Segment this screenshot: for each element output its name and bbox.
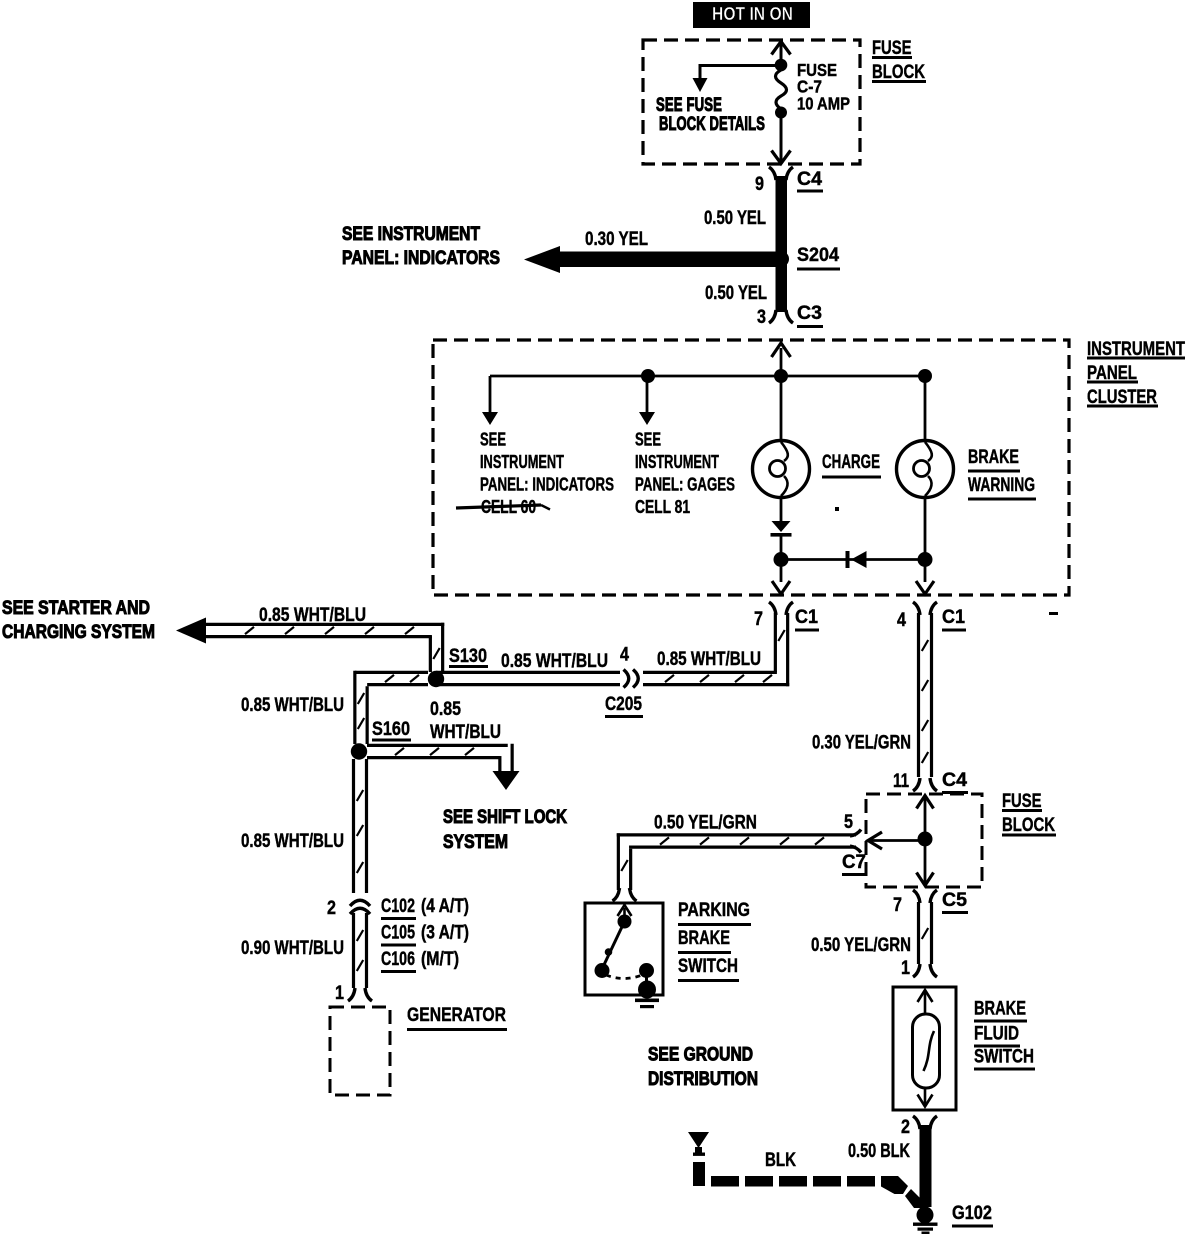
wire from HOT IN ON into fuse block (772, 42, 791, 66)
wire from S130 up to starter branch corner (430, 623, 442, 672)
wire diode to junction (780, 536, 783, 560)
svg-text:HOT IN ON: HOT IN ON (712, 3, 793, 24)
wire 0.30 YEL to instrument panel indicators (left arrow) (524, 228, 777, 273)
svg-text:4: 4 (897, 609, 906, 631)
svg-text:0.50 YEL: 0.50 YEL (704, 207, 766, 229)
svg-text:DISTRIBUTION: DISTRIBUTION (648, 1068, 758, 1090)
connector C3 pin 3 (757, 302, 823, 328)
svg-text:0.30 YEL/GRN: 0.30 YEL/GRN (812, 731, 911, 753)
svg-text:(4 A/T): (4 A/T) (421, 895, 469, 917)
svg-text:BLOCK: BLOCK (1002, 814, 1055, 836)
connector C5 pin 7 (893, 889, 968, 916)
svg-text:9: 9 (755, 173, 764, 195)
wire entering cluster from C3 (772, 343, 791, 376)
wire inside lower fuse block (917, 796, 934, 886)
svg-text:0.90 WHT/BLU: 0.90 WHT/BLU (241, 937, 344, 959)
label SEE SHIFT LOCK SYSTEM (443, 806, 567, 853)
svg-text:PANEL: GAGES: PANEL: GAGES (635, 474, 735, 494)
svg-text:BRAKE: BRAKE (968, 446, 1019, 468)
diode (horizontal, pointing left) (846, 551, 867, 568)
label FUSE BLOCK (872, 37, 926, 83)
wire corner down to S160 (355, 671, 367, 744)
svg-text:SWITCH: SWITCH (678, 955, 738, 977)
wire S160 to shift lock system (367, 744, 520, 790)
indicator lamp BRAKE WARNING (897, 441, 954, 498)
connector C7 pin 5 (flare at end of parking brake wire) (842, 811, 867, 876)
svg-text:S130: S130 (449, 645, 487, 667)
junction on bus at charge lamp (774, 369, 788, 383)
wire 0.85 WHT/BLU from C1-7 down to corner (775, 613, 787, 686)
wire 0.90 WHT/BLU from C102 to generator (241, 913, 367, 988)
cross wire between legs (781, 558, 925, 561)
svg-text:0.85 WHT/BLU: 0.85 WHT/BLU (501, 650, 608, 672)
instrument panel cluster dashed enclosure (433, 340, 1069, 595)
connector pin 1 at brake fluid switch (901, 957, 937, 979)
svg-text:C7: C7 (842, 851, 866, 873)
wire charge leg to connector C1 pin 7 (772, 559, 790, 594)
wire 0.85 WHT/BLU horizontal C205 to corner (436, 648, 789, 685)
svg-text:1: 1 (335, 982, 344, 1004)
svg-text:FUSE: FUSE (1002, 790, 1042, 812)
svg-text:WHT/BLU: WHT/BLU (430, 721, 501, 743)
svg-text:(3 A/T): (3 A/T) (421, 921, 469, 943)
svg-text:0.30 YEL: 0.30 YEL (585, 228, 648, 250)
connector C102/C105/C106 pin 2 (inline) (327, 893, 371, 919)
label SEE INSTRUMENT PANEL: INDICATORS (342, 223, 500, 269)
bus wire inside cluster (490, 375, 925, 378)
svg-text:PANEL: INDICATORS: PANEL: INDICATORS (480, 474, 614, 494)
svg-text:C5: C5 (942, 889, 967, 911)
svg-text:SEE: SEE (480, 429, 506, 449)
svg-text:PANEL: INDICATORS: PANEL: INDICATORS (342, 247, 500, 269)
wire brake warning lamp to junction (924, 496, 927, 560)
junction right (brake warning leg) (918, 552, 933, 567)
connector C205 pin 4 (inline) (605, 643, 643, 718)
wire 0.50 YEL from C4 to splice S204 (thick) (704, 176, 787, 259)
arrow to instrument panel indicators (cell 60) (482, 376, 498, 425)
svg-text:(M/T): (M/T) (421, 948, 459, 970)
svg-text:0.50 YEL/GRN: 0.50 YEL/GRN (654, 811, 757, 833)
wire 0.50 YEL/GRN from C5 to brake fluid switch (811, 902, 932, 964)
label CHARGE (822, 451, 881, 479)
svg-text:CELL 81: CELL 81 (635, 497, 690, 517)
svg-text:5: 5 (844, 811, 853, 833)
svg-text:C3: C3 (797, 302, 822, 324)
label BRAKE FLUID SWITCH (974, 997, 1035, 1070)
svg-text:0.85 WHT/BLU: 0.85 WHT/BLU (657, 648, 761, 670)
svg-text:0.85 WHT/BLU: 0.85 WHT/BLU (241, 830, 344, 852)
brake fluid switch element (913, 990, 940, 1107)
junction on bus at gages branch (641, 369, 655, 383)
connector C1 pin 4 (897, 602, 966, 632)
svg-text:CHARGE: CHARGE (822, 451, 880, 473)
svg-text:BRAKE: BRAKE (974, 997, 1026, 1019)
wire 0.85 WHT/BLU S130 to C205 (501, 650, 608, 672)
svg-text:C4: C4 (942, 769, 967, 791)
svg-text:S204: S204 (797, 244, 839, 266)
label SEE INSTRUMENT PANEL: INDICATORS CELL 60 (456, 429, 614, 517)
wire bus to charge lamp (780, 376, 783, 442)
svg-text:FLUID: FLUID (974, 1022, 1019, 1044)
label PARKING BRAKE SWITCH (678, 899, 751, 982)
svg-text:0.85 WHT/BLU: 0.85 WHT/BLU (241, 694, 344, 716)
label INSTRUMENT PANEL CLUSTER (1087, 338, 1185, 408)
svg-text:SEE: SEE (635, 429, 661, 449)
connector C1 pin 7 (754, 602, 819, 632)
svg-text:SEE STARTER AND: SEE STARTER AND (2, 597, 150, 619)
label FUSE BLOCK (lower) (1002, 790, 1056, 837)
svg-text:0.50 YEL/GRN: 0.50 YEL/GRN (811, 934, 911, 956)
svg-text:C4: C4 (797, 168, 822, 190)
svg-text:11: 11 (893, 770, 909, 792)
svg-text:C106: C106 (381, 948, 415, 970)
fuse block (upper) dashed enclosure (643, 40, 860, 164)
parking brake switch contacts (595, 905, 655, 979)
ground at parking brake switch (635, 970, 659, 1008)
wire 0.85 WHT/BLU from S160 down to C102 (241, 759, 367, 895)
junction inside lower fuse block (918, 832, 933, 847)
label SEE GROUND DISTRIBUTION (648, 1043, 758, 1090)
indicator lamp CHARGE (753, 441, 810, 498)
svg-text:1: 1 (901, 957, 910, 979)
wire 0.30 YEL/GRN from C1-4 to C4-11 (812, 613, 932, 777)
svg-text:C1: C1 (942, 606, 965, 628)
svg-text:GENERATOR: GENERATOR (407, 1004, 506, 1026)
junction on bus at brake warning lamp (918, 369, 932, 383)
svg-text:INSTRUMENT: INSTRUMENT (480, 452, 564, 472)
wire 0.50 YEL from S204 to connector C3 (thick) (705, 262, 787, 312)
generator (dashed box) (330, 1007, 390, 1095)
scan artifact dot (835, 507, 839, 511)
splice S160 (351, 718, 411, 760)
svg-text:BLOCK DETAILS: BLOCK DETAILS (659, 113, 765, 135)
svg-text:0.50 BLK: 0.50 BLK (848, 1140, 910, 1162)
ground G102 (913, 1202, 993, 1234)
svg-text:4: 4 (620, 643, 629, 665)
svg-text:INSTRUMENT: INSTRUMENT (635, 452, 719, 472)
connector pin 2 below brake fluid switch (901, 1116, 937, 1138)
svg-text:BLOCK: BLOCK (872, 61, 925, 83)
svg-text:3: 3 (757, 306, 766, 328)
label 0.85 WHT/BLU (left of S130) (241, 694, 344, 716)
svg-text:S160: S160 (372, 718, 410, 740)
wire BLK dashed to G102 (693, 1149, 922, 1208)
connector C4 pin 11 (893, 769, 968, 794)
svg-text:BRAKE: BRAKE (678, 927, 730, 949)
label SEE STARTER AND CHARGING SYSTEM (2, 597, 155, 643)
label GENERATOR (407, 1004, 507, 1031)
arrow to instrument panel gages (cell 81) (639, 376, 655, 425)
wire 0.85 WHT/BLU to starter and charging system (176, 604, 444, 644)
svg-text:PARKING: PARKING (678, 899, 750, 921)
svg-text:C102: C102 (381, 895, 415, 917)
svg-text:7: 7 (754, 608, 763, 630)
wire branch to connector C7 pin 5 (868, 832, 925, 849)
splice S204 (773, 244, 840, 271)
junction left (charge leg) (774, 552, 789, 567)
svg-text:WARNING: WARNING (968, 474, 1035, 496)
diode (vertical, below charge lamp) (771, 521, 792, 537)
connector C4 pin 9 (755, 167, 823, 195)
svg-text:0.50 YEL: 0.50 YEL (705, 282, 767, 304)
node HOT IN ON (power feed banner) (693, 2, 810, 28)
svg-text:BLK: BLK (765, 1149, 796, 1171)
label BRAKE WARNING (968, 446, 1036, 501)
label SEE INSTRUMENT PANEL: GAGES CELL 81 (635, 429, 735, 517)
svg-text:10 AMP: 10 AMP (797, 94, 850, 114)
junction above fuse C-7 (775, 59, 788, 72)
svg-text:7: 7 (893, 894, 902, 916)
svg-text:SEE SHIFT LOCK: SEE SHIFT LOCK (443, 806, 567, 828)
svg-text:FUSE: FUSE (872, 37, 912, 59)
svg-text:SEE GROUND: SEE GROUND (648, 1043, 753, 1065)
svg-text:SEE INSTRUMENT: SEE INSTRUMENT (342, 223, 480, 245)
wire S160 corner to S130 (355, 672, 428, 684)
fuse block (lower) dashed enclosure (866, 794, 982, 887)
label 0.85 WHT/BLU (right of S160) (430, 698, 501, 743)
parking brake switch enclosure (585, 903, 663, 995)
scan artifact dash (1049, 612, 1058, 615)
splice S130 (428, 645, 488, 687)
svg-text:C105: C105 (381, 921, 415, 943)
svg-text:SYSTEM: SYSTEM (443, 831, 508, 853)
svg-text:C205: C205 (605, 693, 642, 715)
svg-text:SWITCH: SWITCH (974, 1045, 1034, 1067)
svg-text:0.85 WHT/BLU: 0.85 WHT/BLU (259, 604, 366, 626)
brake fluid switch enclosure (893, 987, 956, 1110)
svg-text:C1: C1 (795, 606, 818, 628)
arrow from ground distribution (down triangle) (688, 1132, 709, 1156)
wire 0.50 YEL/GRN to parking brake switch (613, 811, 857, 901)
svg-text:2: 2 (901, 1116, 910, 1138)
labels C102 (4 A/T) C105 (3 A/T) C106 (M/T) (381, 895, 469, 973)
wire brake leg to connector C1 pin 4 (916, 559, 934, 594)
connector pin 1 at generator (335, 982, 372, 1004)
svg-text:CHARGING SYSTEM: CHARGING SYSTEM (2, 621, 155, 643)
svg-text:G102: G102 (952, 1202, 992, 1224)
fuse C-7 10 AMP (775, 60, 850, 119)
wire branch to fuse block details (693, 64, 782, 92)
wire bus to brake warning lamp (924, 376, 927, 442)
wire charge lamp to diode (780, 496, 783, 522)
wire 0.50 BLK from brake fluid switch to G102 (thick) (848, 1125, 932, 1207)
label SEE FUSE BLOCK DETAILS (656, 94, 765, 135)
svg-text:0.85: 0.85 (430, 698, 461, 720)
wire from fuse to connector C4 (772, 112, 791, 164)
svg-text:2: 2 (327, 897, 336, 919)
